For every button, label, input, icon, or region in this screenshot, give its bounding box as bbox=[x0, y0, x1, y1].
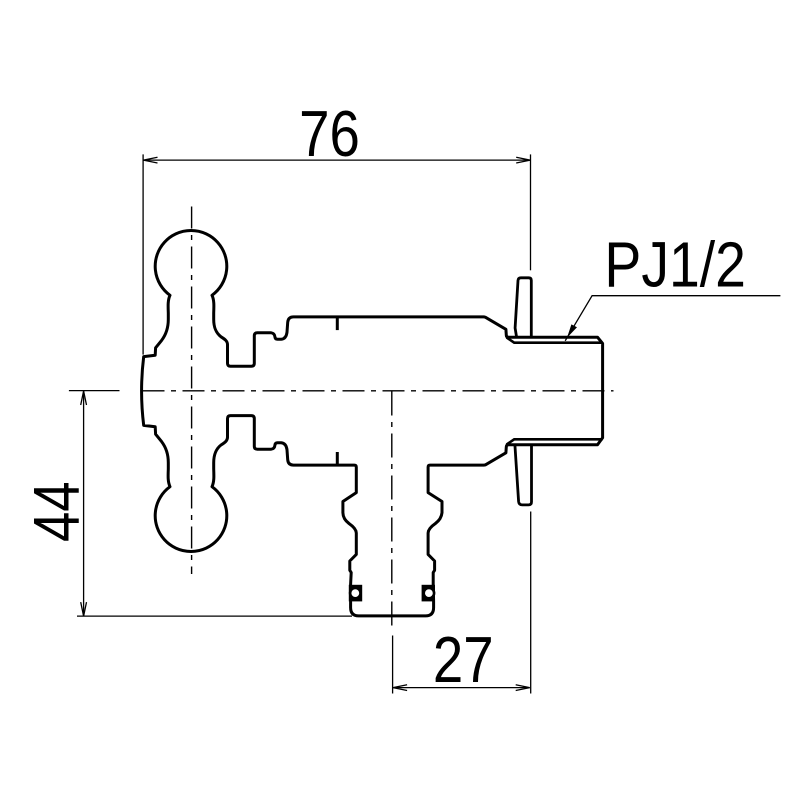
right O-ring groove box bbox=[422, 585, 435, 602]
horizontal centerline bbox=[143, 390, 614, 392]
bottom flange washer inner edge bbox=[507, 439, 603, 444]
top flange washer inner edge bbox=[507, 337, 603, 342]
PJ1/2 leader arrow bbox=[567, 324, 577, 337]
dim 27 text bbox=[433, 624, 494, 697]
dim 76 extension line left bbox=[142, 154, 144, 354]
svg-text:44: 44 bbox=[20, 481, 93, 542]
parting tick on body bottom bbox=[336, 452, 339, 465]
dim 76 line bbox=[143, 159, 530, 161]
dim 44 line bbox=[83, 391, 85, 616]
dim 27 right arrow bbox=[516, 685, 530, 691]
dim 76 text bbox=[299, 98, 360, 171]
dim 44 top arrow bbox=[81, 391, 87, 405]
dim 44 text bbox=[20, 481, 93, 542]
dim 76 right arrow bbox=[516, 157, 530, 163]
left O-ring groove box bbox=[349, 585, 362, 602]
dim 27 left arrow bbox=[393, 685, 407, 691]
outlet vertical centerline bbox=[391, 392, 393, 631]
parting tick on body top bbox=[336, 317, 339, 330]
PJ1/2 text bbox=[604, 229, 746, 301]
dim 76 extension line right bbox=[530, 154, 532, 270]
svg-text:27: 27 bbox=[433, 624, 494, 697]
right O-ring bbox=[424, 588, 434, 598]
top tab bbox=[515, 278, 531, 337]
left O-ring bbox=[350, 588, 360, 598]
PJ1/2 leader line bbox=[565, 296, 780, 341]
svg-text:PJ1/2: PJ1/2 bbox=[604, 229, 746, 301]
dim 44 bottom arrow bbox=[81, 602, 87, 616]
bottom tab bbox=[515, 445, 532, 505]
dim 27 extension line right bbox=[530, 512, 532, 694]
dim 44 extension line bottom bbox=[77, 615, 352, 617]
handle vertical centerline bbox=[191, 207, 193, 575]
valve silhouette (handle, bonnet, body, thread end, bottom outlet) bbox=[142, 231, 603, 616]
dim 44 extension line top bbox=[69, 390, 120, 392]
dim 27 extension line left bbox=[392, 636, 394, 694]
svg-text:76: 76 bbox=[299, 98, 360, 171]
dim 27 line bbox=[393, 687, 530, 689]
dim 76 left arrow bbox=[143, 157, 157, 163]
